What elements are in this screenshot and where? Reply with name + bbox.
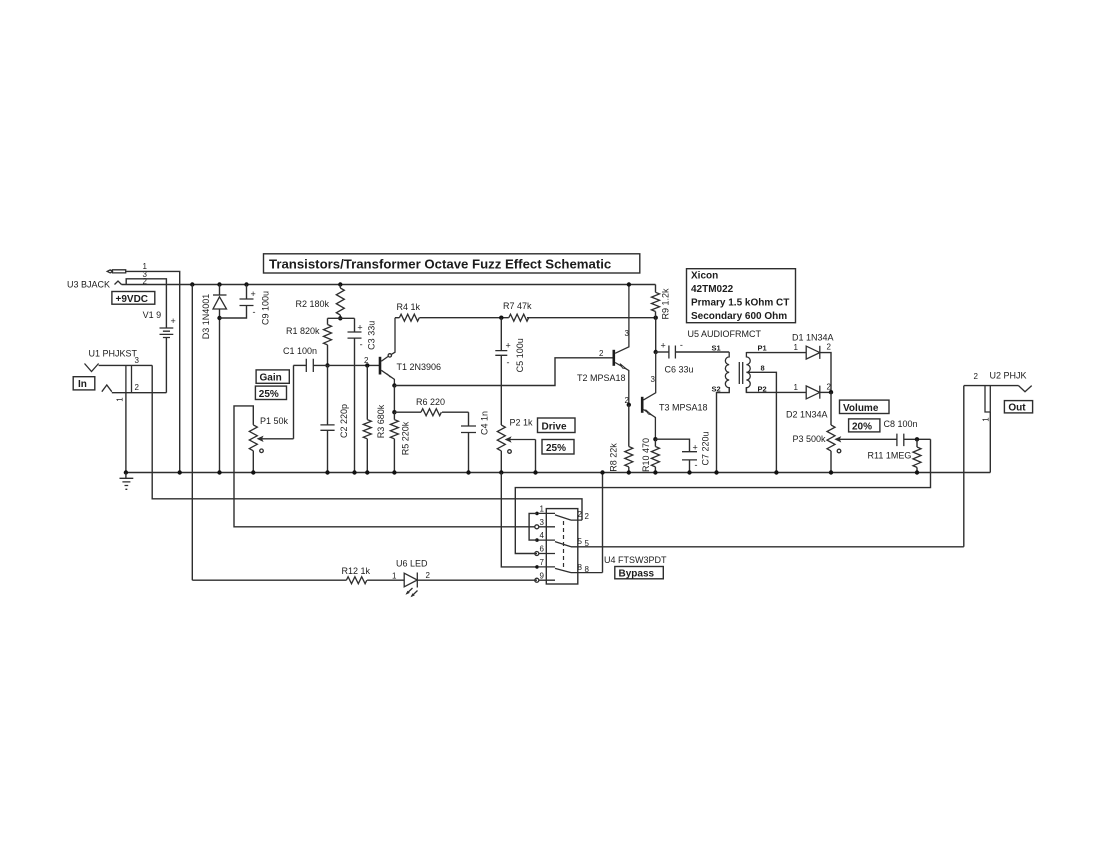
Bypass box <box>615 567 664 580</box>
wire sleeve to ground rail <box>989 412 991 473</box>
svg-text:20%: 20% <box>852 421 872 432</box>
svg-text:R9 1.2k: R9 1.2k <box>660 288 670 320</box>
emitter diagonal down with arrow <box>381 370 394 385</box>
wiper <box>509 439 536 441</box>
svg-text:2: 2 <box>827 343 832 352</box>
svg-text:+: + <box>357 323 362 333</box>
Drive box <box>538 418 576 433</box>
svg-text:R6 220: R6 220 <box>416 397 445 407</box>
svg-text:Xicon: Xicon <box>691 271 718 282</box>
svg-text:-: - <box>680 340 683 350</box>
secondary winding <box>725 352 729 393</box>
wire pin8 to ground rail <box>602 473 604 573</box>
svg-text:In: In <box>78 379 87 390</box>
svg-text:Prmary 1.5 kOhm CT: Prmary 1.5 kOhm CT <box>691 298 789 309</box>
wire center tap 8 to ground <box>748 372 776 472</box>
tip contact check <box>1019 386 1032 392</box>
svg-text:+9VDC: +9VDC <box>116 294 149 305</box>
svg-text:Drive: Drive <box>542 422 567 433</box>
emitter with arrow <box>644 410 656 440</box>
svg-text:R5 220k: R5 220k <box>400 421 410 455</box>
svg-text:V1 9: V1 9 <box>143 310 162 320</box>
svg-text:2: 2 <box>426 571 431 580</box>
svg-text:T1 2N3906: T1 2N3906 <box>397 362 442 372</box>
wire wiper down to ground <box>535 440 537 473</box>
bypass switch U4 FTSW3PDT <box>529 470 964 584</box>
primary winding <box>746 352 750 392</box>
svg-text:R10 470: R10 470 <box>641 438 651 472</box>
resistor R12 1k <box>192 566 404 584</box>
svg-text:5: 5 <box>578 537 583 546</box>
svg-text:1: 1 <box>116 397 125 402</box>
node pin1 ground junction <box>178 470 182 474</box>
svg-text:Volume: Volume <box>843 403 879 414</box>
potentiometer P3 500k <box>793 392 866 474</box>
wiper <box>261 438 294 440</box>
svg-text:1: 1 <box>392 572 397 581</box>
wire T1 emitter down to R5/R6 <box>393 386 395 413</box>
svg-text:U4 FTSW3PDT: U4 FTSW3PDT <box>604 555 667 565</box>
jack slot <box>126 365 132 392</box>
input jack U1 PHJKST <box>85 349 583 521</box>
wire LED feed from +9V down <box>191 285 193 581</box>
wire ring line <box>112 392 167 394</box>
resistor R3 680k <box>363 363 386 475</box>
tip wire <box>964 385 1019 387</box>
capacitor C1 100n <box>283 346 380 372</box>
svg-text:25%: 25% <box>546 443 566 454</box>
capacitor C3 33u <box>348 318 377 474</box>
svg-text:T2 MPSA18: T2 MPSA18 <box>577 373 626 383</box>
svg-text:R12 1k: R12 1k <box>342 566 371 576</box>
jumper pins 1-4 <box>529 513 537 540</box>
Xicon info box <box>687 269 796 323</box>
capacitor C7 220u <box>655 431 710 474</box>
svg-text:S1: S1 <box>712 344 721 353</box>
transistor T3 MPSA18 <box>625 352 708 441</box>
wire tip line <box>99 364 153 366</box>
svg-text:P2 1k: P2 1k <box>510 418 534 428</box>
In box <box>73 377 95 391</box>
node T1 emitter / R5 / R6 junction <box>392 410 396 414</box>
svg-text:D1 1N34A: D1 1N34A <box>792 333 834 343</box>
wire pin1 to ground <box>126 271 180 472</box>
capacitor C6 33u <box>656 340 730 375</box>
capacitor C2 220p <box>320 365 348 474</box>
dashed link <box>563 521 565 571</box>
svg-text:2: 2 <box>578 510 583 519</box>
svg-text:Secondary 600 Ohm: Secondary 600 Ohm <box>691 311 787 322</box>
svg-text:3: 3 <box>540 518 545 527</box>
resistor R11 1MEG <box>868 439 922 474</box>
svg-text:C1 100n: C1 100n <box>283 346 317 356</box>
svg-text:+: + <box>506 341 511 351</box>
svg-text:+: + <box>693 443 698 453</box>
capacitor C9 100u <box>220 282 271 325</box>
svg-text:+: + <box>251 289 256 299</box>
node C6 / T3 collector junction <box>654 350 658 354</box>
svg-text:C3 33u: C3 33u <box>366 321 376 350</box>
potentiometer P2 1k <box>497 418 537 567</box>
svg-text:1: 1 <box>982 417 991 422</box>
+9VDC box <box>112 292 155 305</box>
svg-text:2: 2 <box>135 383 140 392</box>
svg-text:4: 4 <box>540 531 545 540</box>
svg-text:-: - <box>253 307 256 317</box>
svg-text:8: 8 <box>585 565 590 574</box>
svg-text:C4 1n: C4 1n <box>479 411 489 435</box>
svg-text:D3 1N4001: D3 1N4001 <box>201 294 211 340</box>
resistor R5 220k <box>390 412 410 474</box>
capacitor C4 1n <box>461 411 489 475</box>
svg-text:C6 33u: C6 33u <box>665 365 694 375</box>
svg-text:1: 1 <box>794 343 799 352</box>
svg-text:2: 2 <box>974 372 979 381</box>
Gain box <box>256 370 289 384</box>
svg-text:P1 50k: P1 50k <box>260 416 289 426</box>
svg-text:D2 1N34A: D2 1N34A <box>786 410 828 420</box>
wire P1 out <box>746 388 806 393</box>
wire S2 to ground <box>717 388 730 473</box>
transistor T1 2N3906 <box>380 318 441 388</box>
wiper <box>839 438 865 440</box>
svg-text:+: + <box>661 341 666 351</box>
levers <box>555 515 571 573</box>
svg-text:R3 680k: R3 680k <box>376 404 386 438</box>
title box <box>264 254 640 273</box>
svg-text:Transistors/Transformer Octave: Transistors/Transformer Octave Fuzz Effe… <box>269 257 611 272</box>
svg-text:R2 180k: R2 180k <box>296 299 330 309</box>
ring contact check <box>102 385 112 392</box>
wire +9V top rail <box>122 284 656 286</box>
svg-text:6: 6 <box>540 545 545 554</box>
pin end circles <box>535 525 539 529</box>
svg-text:-: - <box>695 460 698 470</box>
svg-text:U1 PHJKST: U1 PHJKST <box>89 349 138 359</box>
transistor T2 MPSA18 <box>577 282 631 407</box>
resistor R1 820k <box>286 318 332 367</box>
svg-text:R4 1k: R4 1k <box>397 302 421 312</box>
svg-text:U3 BJACK: U3 BJACK <box>67 280 110 290</box>
svg-text:U2 PHJK: U2 PHJK <box>990 371 1027 381</box>
svg-text:9: 9 <box>540 571 545 580</box>
svg-text:25%: 25% <box>259 389 279 400</box>
wire wiper to C1 <box>293 365 295 438</box>
svg-text:R11 1MEG: R11 1MEG <box>868 451 912 461</box>
wire C8 node to switch pin6 <box>515 439 930 553</box>
light arrows <box>407 588 418 596</box>
jack slot <box>985 386 990 412</box>
LED U6 <box>392 559 537 598</box>
svg-text:C7 220u: C7 220u <box>700 431 710 465</box>
diode D1 1N34A <box>746 333 833 393</box>
battery V1 9 <box>143 285 176 393</box>
left pin stubs <box>539 513 555 580</box>
svg-text:1: 1 <box>794 383 799 392</box>
capacitor C8 100n <box>865 419 931 446</box>
svg-text:3: 3 <box>651 375 656 384</box>
svg-text:P1: P1 <box>758 344 767 353</box>
tip contact check <box>85 364 99 372</box>
wire tip to bypass switch pin2 <box>152 365 582 520</box>
wire tip to switch pin5 <box>963 386 965 547</box>
svg-text:42TM022: 42TM022 <box>691 284 734 295</box>
svg-text:C2 220p: C2 220p <box>339 404 349 438</box>
battery jack U3 BJACK <box>67 262 182 475</box>
core <box>739 362 742 384</box>
Volume box <box>840 400 890 414</box>
collector diagonal up <box>381 357 388 362</box>
svg-text:C5 100u: C5 100u <box>515 338 525 372</box>
svg-text:+: + <box>171 316 176 326</box>
resistor R2 180k <box>296 282 345 320</box>
plug symbol <box>107 270 126 273</box>
svg-text:P3 500k: P3 500k <box>793 434 827 444</box>
resistor R10 470 <box>641 438 660 475</box>
ground <box>120 473 134 490</box>
node rail left vertical junction <box>190 282 194 286</box>
diode D3 1N4001 <box>201 282 227 474</box>
resistor R4 1k <box>395 302 509 321</box>
svg-text:-: - <box>507 358 510 368</box>
svg-text:C9 100u: C9 100u <box>260 291 270 325</box>
svg-text:T3 MPSA18: T3 MPSA18 <box>659 403 708 413</box>
svg-text:7: 7 <box>540 558 545 567</box>
jack contact check <box>115 281 122 285</box>
right pin stubs <box>571 520 603 573</box>
svg-text:2: 2 <box>625 396 630 405</box>
Drive 25% box <box>542 440 574 455</box>
Gain 25% box <box>255 386 286 400</box>
resistor R7 47k <box>499 301 658 321</box>
svg-text:C8 100n: C8 100n <box>884 419 918 429</box>
svg-text:-: - <box>360 340 363 350</box>
svg-text:Gain: Gain <box>260 373 282 384</box>
wire pin5 to output <box>583 546 964 548</box>
svg-text:3: 3 <box>135 356 140 365</box>
transformer U5 AUDIOFRMCT <box>688 329 807 475</box>
Out box <box>1004 401 1032 414</box>
output jack U2 PHJK <box>964 371 1032 547</box>
svg-text:8: 8 <box>761 364 765 373</box>
resistor R9 1.2k <box>652 285 671 320</box>
svg-text:R1 820k: R1 820k <box>286 326 320 336</box>
svg-text:R8 22k: R8 22k <box>608 443 618 472</box>
wire T1 emitter to T2 base <box>394 358 613 386</box>
svg-text:Out: Out <box>1008 403 1026 414</box>
svg-text:U6 LED: U6 LED <box>396 559 428 569</box>
svg-text:Bypass: Bypass <box>619 569 655 580</box>
emitter with arrow <box>615 363 629 405</box>
resistor R6 220 <box>394 397 468 416</box>
svg-text:2: 2 <box>599 349 604 358</box>
svg-text:1: 1 <box>540 505 545 514</box>
capacitor C5 100u <box>495 318 525 425</box>
svg-text:8: 8 <box>578 563 583 572</box>
wire P1 top to switch pin3 <box>234 406 535 527</box>
potentiometer P1 50k <box>234 365 535 526</box>
svg-text:2: 2 <box>585 512 590 521</box>
wire pin3 bracket to battery <box>126 279 166 285</box>
resistor R8 22k <box>608 405 632 475</box>
wire R2 bottom tee <box>328 317 355 319</box>
Volume 20% box <box>849 419 880 432</box>
wire ground bottom rail <box>126 472 990 474</box>
svg-text:R7 47k: R7 47k <box>503 301 532 311</box>
diode D2 1N34A <box>786 383 833 420</box>
wire P2 bottom to switch pin7 <box>501 473 537 567</box>
svg-text:U5 AUDIOFRMCT: U5 AUDIOFRMCT <box>688 329 762 339</box>
wire R9 bottom to C6 node <box>655 318 657 352</box>
wire sleeve to ground <box>125 393 127 473</box>
